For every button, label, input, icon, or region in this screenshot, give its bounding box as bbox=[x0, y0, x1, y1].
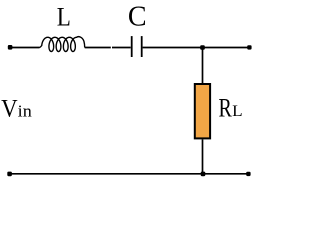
wire bbox=[202, 140, 204, 174]
resistor RL bbox=[195, 84, 210, 138]
wire bbox=[143, 47, 249, 49]
svg-text:in: in bbox=[18, 102, 33, 121]
node: output terminal top right bbox=[247, 45, 251, 49]
node: junction bottom bbox=[201, 172, 206, 177]
svg-text:R: R bbox=[219, 93, 233, 122]
svg-text:V: V bbox=[1, 96, 18, 123]
node: output terminal bottom right bbox=[246, 172, 250, 176]
wire bbox=[85, 47, 111, 49]
svg-text:L: L bbox=[232, 103, 243, 120]
wire bbox=[202, 48, 204, 84]
svg-text:L: L bbox=[57, 2, 71, 31]
inductor L bbox=[40, 37, 85, 52]
svg-text:C: C bbox=[128, 1, 147, 33]
node: input terminal top bbox=[8, 45, 13, 50]
capacitor C bbox=[132, 36, 142, 57]
wire bbox=[11, 47, 40, 49]
node: input terminal bottom bbox=[7, 172, 12, 177]
wire bbox=[112, 47, 131, 49]
node: junction top bbox=[200, 45, 205, 50]
wire bbox=[11, 173, 248, 175]
